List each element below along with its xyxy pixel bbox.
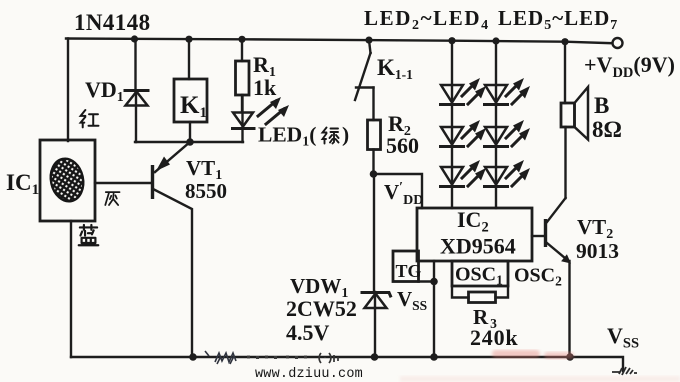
label lan (blue) chinese <box>79 225 99 245</box>
svg-text:IC2: IC2 <box>457 207 489 236</box>
svg-text:+VDD(9V): +VDD(9V) <box>584 52 675 81</box>
resistor R2 <box>368 120 381 174</box>
svg-text:LED1(: LED1( <box>258 123 316 150</box>
terminal +VDD open circle <box>613 38 623 48</box>
node junction TG/VSS pin <box>430 278 438 286</box>
switch K1-1 <box>355 40 374 120</box>
node junction at VT1 emitter <box>186 138 194 146</box>
svg-text:1k: 1k <box>253 75 277 100</box>
LED LED1 <box>233 95 290 142</box>
node junction rail-speaker <box>561 38 568 45</box>
label lv (green) chinese <box>323 128 339 144</box>
diode VD1 (zener-style, cathode up) <box>125 39 148 142</box>
node junction rail-IC2 VSS <box>430 353 438 361</box>
resistor R1 <box>236 39 250 112</box>
sensor IC1 <box>40 140 95 357</box>
transistor VT1 (PNP 8550) <box>95 142 192 357</box>
wire left vertical from rail to IC1 <box>67 39 69 142</box>
wire bottom ground rail <box>71 357 623 371</box>
svg-text:IC1: IC1 <box>6 170 39 198</box>
LED column A (LED2~LED4) <box>441 41 487 208</box>
LED column B (LED5~LED7) <box>485 41 531 208</box>
svg-text:VD1: VD1 <box>85 77 124 105</box>
svg-text:XD9564: XD9564 <box>440 234 516 259</box>
node junction rail-VD1 <box>131 35 138 42</box>
node junction rail-K1 <box>185 36 192 43</box>
node junction rail-R1 <box>238 36 245 43</box>
label hong (red) chinese <box>81 110 99 127</box>
wire VDD' feed to IC2 <box>374 174 423 208</box>
label hui (gray) chinese <box>105 192 119 205</box>
svg-text:B: B <box>594 93 609 118</box>
svg-text:): ) <box>342 123 349 147</box>
pin box OSC1 <box>452 261 508 286</box>
node junction rail-K1-1 <box>365 37 372 44</box>
pin box TG <box>393 251 434 282</box>
svg-text:2CW52: 2CW52 <box>286 296 357 321</box>
scan artifact red smear <box>492 350 540 358</box>
node junction R2 / zener / VDD' <box>370 170 378 178</box>
relay K1 <box>174 39 207 142</box>
svg-text:4.5V: 4.5V <box>286 320 330 345</box>
IC IC2 XD9564 <box>417 208 532 261</box>
svg-text:LED5~LED7: LED5~LED7 <box>498 6 618 33</box>
node junction rail-VT1 collector <box>189 353 197 361</box>
svg-text:OSC1: OSC1 <box>455 264 503 288</box>
svg-text:K1-1: K1-1 <box>377 55 413 82</box>
wire top rail <box>66 39 612 44</box>
svg-text:LED2~LED4: LED2~LED4 <box>364 6 490 33</box>
svg-text:V′DD: V′DD <box>384 180 423 208</box>
svg-text:240k: 240k <box>470 325 518 350</box>
svg-text:8550: 8550 <box>185 179 227 203</box>
resistor R3 loop <box>452 286 508 303</box>
scan artifact (9) mark <box>319 353 338 363</box>
node junction rail-VT2 emitter <box>566 353 574 361</box>
ground end smudge <box>612 367 637 375</box>
node junction rail-LED column A <box>448 37 455 44</box>
svg-text:9013: 9013 <box>576 239 619 263</box>
node junction rail-LED column B <box>492 37 499 44</box>
wire VSS pin to ground rail <box>433 282 435 358</box>
svg-text:VSS: VSS <box>397 287 427 313</box>
svg-text:VSS: VSS <box>607 323 639 352</box>
svg-text:K1: K1 <box>180 92 207 121</box>
svg-text:8Ω: 8Ω <box>592 117 622 142</box>
scan artifact ticks on ground rail <box>205 351 236 364</box>
node junction rail-zener <box>371 353 379 361</box>
svg-text:VT2: VT2 <box>577 215 613 242</box>
wire mid horizontal (VD1/K1/LED1 to VT1 emitter) <box>135 141 243 143</box>
svg-text:TG: TG <box>396 261 422 281</box>
svg-text:1N4148: 1N4148 <box>74 10 151 35</box>
svg-text:www.dziuu.com: www.dziuu.com <box>255 367 363 382</box>
svg-text:560: 560 <box>386 133 419 158</box>
svg-text:OSC2: OSC2 <box>514 265 562 289</box>
speaker B <box>561 42 588 198</box>
zener diode VDW1 <box>362 174 391 357</box>
transistor VT2 (NPN 9013) <box>532 198 571 357</box>
